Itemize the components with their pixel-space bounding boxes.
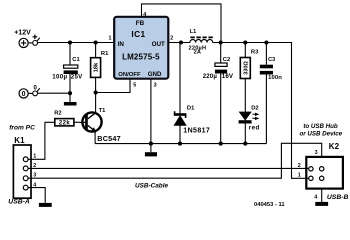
svg-text:R2: R2 xyxy=(54,110,61,116)
svg-text:IC1: IC1 xyxy=(131,29,145,39)
capacitor C2 xyxy=(215,43,227,144)
node GND pin3 rail xyxy=(149,142,153,146)
svg-text:16V: 16V xyxy=(222,73,234,80)
connector K2 xyxy=(306,157,343,189)
svg-text:C2: C2 xyxy=(223,57,230,63)
svg-text:3: 3 xyxy=(315,150,318,156)
connector plug (+12V) xyxy=(28,38,40,46)
svg-text:K1: K1 xyxy=(14,136,25,145)
svg-text:R3: R3 xyxy=(251,50,259,56)
svg-text:GND: GND xyxy=(148,71,162,78)
svg-text:L1: L1 xyxy=(190,29,196,35)
node D1 top xyxy=(179,40,183,44)
svg-text:USB-B: USB-B xyxy=(327,194,349,201)
wire R1 top xyxy=(95,43,97,58)
ground (main rail) xyxy=(145,144,157,157)
wire 0V net xyxy=(38,92,71,94)
svg-text:R1: R1 xyxy=(101,51,109,57)
svg-text:to USB Hub: to USB Hub xyxy=(303,123,338,130)
resistor R1 xyxy=(91,58,101,78)
node C3 top xyxy=(264,40,268,44)
svg-text:OUT: OUT xyxy=(152,41,165,48)
node C1 top xyxy=(68,40,72,44)
label + (plug polarity) xyxy=(33,35,38,40)
wire OUT to L1 xyxy=(168,42,190,44)
svg-text:K2: K2 xyxy=(329,142,340,151)
node 0V junction xyxy=(68,91,72,95)
svg-text:C3: C3 xyxy=(268,57,275,63)
svg-text:C1: C1 xyxy=(72,57,80,63)
wire K1 pin4 to ground xyxy=(28,188,45,203)
svg-text:red: red xyxy=(249,125,260,132)
svg-text:2A: 2A xyxy=(194,50,202,56)
svg-text:4: 4 xyxy=(143,12,146,18)
svg-text:330Ω: 330Ω xyxy=(243,61,249,75)
wire FB feedback xyxy=(142,4,222,43)
svg-text:D1: D1 xyxy=(187,106,195,112)
wire GND pin 3 xyxy=(150,79,152,144)
wire USB data D- xyxy=(28,167,309,169)
IC IC1 (LM2575-5 buck regulator) xyxy=(114,17,168,79)
svg-text:USB-Cable: USB-Cable xyxy=(135,183,168,190)
wire ground rail xyxy=(95,143,266,145)
svg-text:25V: 25V xyxy=(71,74,83,81)
ground (below C1) xyxy=(64,93,77,105)
svg-text:+12V: +12V xyxy=(14,29,31,36)
svg-text:040453 - 11: 040453 - 11 xyxy=(254,202,285,208)
svg-text:220µ: 220µ xyxy=(203,73,218,80)
svg-text:FB: FB xyxy=(136,20,145,27)
node D2 bottom xyxy=(243,142,247,146)
svg-text:LM2575-5: LM2575-5 xyxy=(122,52,160,61)
wire +5V rail xyxy=(213,43,309,179)
svg-text:from PC: from PC xyxy=(9,125,35,132)
wire K2 pin4 to ground xyxy=(321,189,323,202)
wire ON/OFF net xyxy=(96,79,130,93)
resistor R2 xyxy=(55,119,74,127)
terminal +12V xyxy=(19,38,28,47)
svg-text:1: 1 xyxy=(298,172,301,178)
node C2 top xyxy=(219,40,223,44)
wire R1 bottom to T1 collector xyxy=(95,77,97,112)
svg-text:100n: 100n xyxy=(268,75,282,81)
node R1 top xyxy=(94,40,98,44)
wire USB data D+ xyxy=(28,143,322,178)
svg-text:4: 4 xyxy=(314,195,317,201)
ground (K2) xyxy=(315,202,328,206)
inductor L1 xyxy=(190,37,213,42)
resistor R3 xyxy=(240,43,250,79)
terminal 0 xyxy=(19,89,28,98)
svg-text:18k: 18k xyxy=(94,62,100,72)
wire K1 pin1 to R2 xyxy=(28,122,55,159)
LED D2 xyxy=(239,79,260,144)
transistor T1 (BC547) xyxy=(81,112,101,143)
svg-text:T1: T1 xyxy=(99,108,107,114)
wire C1 bottom xyxy=(69,74,71,93)
svg-text:0: 0 xyxy=(22,91,26,98)
svg-text:ON/OFF: ON/OFF xyxy=(118,72,141,78)
svg-text:D2: D2 xyxy=(251,105,258,111)
svg-text:1: 1 xyxy=(109,36,112,42)
svg-text:IN: IN xyxy=(118,41,125,48)
svg-text:5: 5 xyxy=(133,83,136,89)
svg-text:USB-A: USB-A xyxy=(8,198,30,205)
ground (K1) xyxy=(39,203,52,207)
connector plug (0) xyxy=(28,88,40,96)
node C2 bottom xyxy=(219,142,223,146)
svg-text:BC547: BC547 xyxy=(97,134,121,143)
node ON/OFF junction xyxy=(94,90,98,94)
svg-text:3: 3 xyxy=(154,83,157,89)
svg-text:2: 2 xyxy=(170,36,173,42)
svg-text:22k: 22k xyxy=(59,121,70,127)
capacitor C1 xyxy=(64,65,78,74)
svg-text:100µ: 100µ xyxy=(52,74,67,81)
capacitor C3 xyxy=(260,43,273,144)
wire +12V rail xyxy=(38,42,115,44)
wire C1 top xyxy=(69,43,71,66)
node D1 bottom xyxy=(178,142,182,146)
svg-text:1N5817: 1N5817 xyxy=(183,127,210,134)
diode D1 xyxy=(174,43,187,144)
wire R2 to T1 base xyxy=(74,121,82,123)
svg-text:2: 2 xyxy=(298,163,301,169)
node R3 top xyxy=(243,40,247,44)
connector K1 xyxy=(13,145,31,198)
svg-text:or USB Device: or USB Device xyxy=(299,131,342,138)
